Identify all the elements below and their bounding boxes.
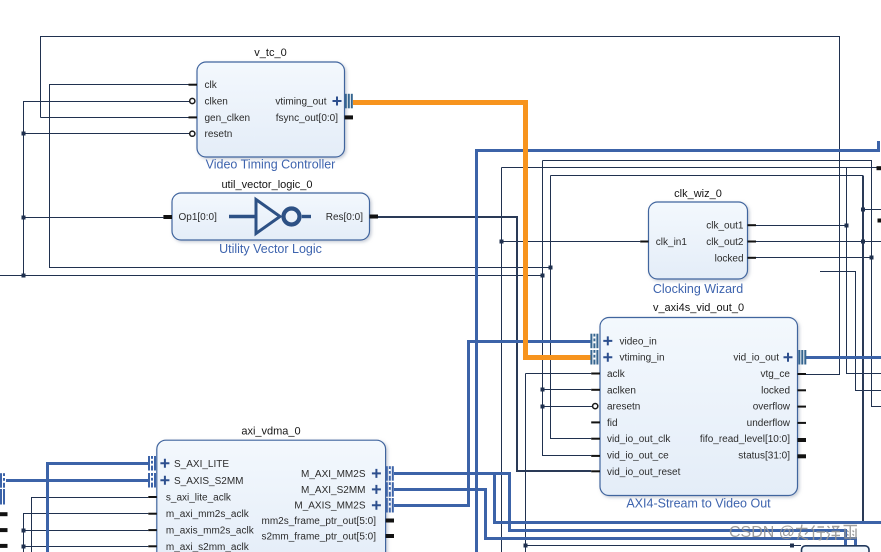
pin vdma S_AXIS_S2MM plus icon [160,476,169,485]
pin vdma mm2s_frame_ptr_out bus stub [386,519,394,523]
svg-text:m_axi_s2mm_aclk: m_axi_s2mm_aclk [166,542,250,552]
junction on clken net at resetn [22,132,26,136]
pin clk_wiz clk_out2 stub [748,241,757,243]
pin vdma M_AXIS_MM2S interface bars [386,498,394,513]
wire clk_out1 net horizontal y=175.5 [551,175,864,177]
junction clken net at x=542 [541,274,545,278]
svg-text:M_AXIS_MM2S: M_AXIS_MM2S [294,501,365,512]
bus wire S_AXI_LITE (blue) [48,464,149,552]
svg-text:s_axi_lite_aclk: s_axi_lite_aclk [166,493,232,504]
wire m_axi_s2mm_aclk branch [24,546,149,548]
wire aresetn branch [543,406,593,408]
svg-text:gen_clken: gen_clken [205,113,251,124]
svg-text:vid_io_out: vid_io_out [733,353,779,364]
wire s_axi_lite_aclk [32,498,149,552]
svg-text:fid: fid [607,418,618,429]
svg-text:clk_out1: clk_out1 [706,221,744,232]
pin v_axi4s vid_io_out interface bars [798,350,806,365]
svg-text:clk_in1: clk_in1 [656,237,688,248]
pin vdma m_axi_s2mm_aclk stub [148,545,157,547]
wire gen_clken [41,117,189,119]
wire Op1 branch [24,217,164,219]
svg-text:aclken: aclken [607,385,636,396]
junction m_axis_mm2s_aclk [22,529,26,533]
svg-text:clken: clken [205,97,228,108]
wire aclken branch [543,389,592,391]
pin v_tc_0 vtiming_out interface bars [345,94,353,109]
wire aclk net bottom horizontal [526,545,802,547]
bus wire blue branch to bottom right [495,474,881,523]
junction aclk bottom right [790,544,794,548]
left off-screen block stub y546 [0,544,8,548]
pin clk_wiz clk_in1 stub [640,241,648,243]
pin v_axi4s vid_io_out_clk stub [591,438,600,440]
wire locked branch [756,257,872,259]
junction y209 right [861,208,865,212]
block v_tc_0 (Video Timing Controller) [197,47,345,172]
svg-text:Clocking Wizard: Clocking Wizard [653,282,743,296]
block util_vector_logic_0 (Utility Vector Logic) [172,179,370,256]
pin vdma M_AXI_MM2S plus icon [372,469,381,478]
pin v_axi4s aclk stub [591,373,600,375]
watermark glyph long [796,525,857,541]
svg-text:m_axi_mm2s_aclk: m_axi_mm2s_aclk [166,509,250,520]
wire clk_in1 net vertical [501,168,503,552]
pin v_axi4s status bus stub [798,454,807,458]
pin vdma M_AXI_MM2S interface bars [386,466,394,481]
svg-text:fsync_out[0:0]: fsync_out[0:0] [276,113,338,124]
wire clken net long horizontal [0,275,543,277]
wire thick dark vertical right (2px) [862,176,864,524]
svg-text:vtiming_in: vtiming_in [620,353,665,364]
svg-text:m_axis_mm2s_aclk: m_axis_mm2s_aclk [166,526,255,537]
junction on clken net at Op1 [22,216,26,220]
pin v_axi4s fifo_read_level bus stub [798,438,807,442]
watermark glyph xing [812,526,826,541]
wire m_axis_mm2s_aclk branch [24,530,149,532]
pin v_tc_0 resetn circle [190,131,195,136]
svg-text:vtiming_out: vtiming_out [275,97,326,108]
wire aclk net vertical [526,374,592,552]
left off-screen block connected interface bars [0,473,5,488]
block axi_vdma_0 (AXI Video DMA, clipped at bottom) [157,426,386,552]
wire aclken net top horizontal to right [543,161,881,407]
wire resetn branch [24,133,190,135]
watermark glyph yu [844,526,858,540]
svg-text:util_vector_logic_0: util_vector_logic_0 [221,179,312,191]
svg-text:axi_vdma_0: axi_vdma_0 [241,426,300,438]
junction m_axi_s2mm_aclk [22,545,26,549]
svg-text:locked: locked [761,385,790,396]
NOT gate symbol U1 [229,200,311,234]
wire clken net vertical [24,102,190,276]
pin vdma M_AXIS_MM2S plus icon [372,501,381,510]
pin v_axi4s aresetn circle [593,404,598,409]
wire right branch y=209.5 [863,209,881,211]
svg-text:mm2s_frame_ptr_out[5:0]: mm2s_frame_ptr_out[5:0] [262,516,377,527]
junction aresetn [541,405,545,409]
svg-text:status[31:0]: status[31:0] [738,451,790,462]
bottom-right off-screen block corner [802,546,870,552]
svg-text:clk: clk [205,80,218,91]
junction locked [870,256,874,260]
svg-text:clk_out2: clk_out2 [706,237,744,248]
bus wire M_AXIS_MM2S to video_in (blue) [394,342,590,506]
svg-text:Op1[0:0]: Op1[0:0] [179,212,218,223]
svg-text:S_AXIS_S2MM: S_AXIS_S2MM [174,476,243,487]
pin v_axi4s locked stub [798,389,807,391]
pin clk_wiz locked stub [748,257,757,259]
pin v_axi4s underflow stub [798,422,807,424]
pin vdma S_AXIS_S2MM interface bars [148,473,156,488]
svg-text:overflow: overflow [753,402,791,413]
svg-text:vid_io_out_ce: vid_io_out_ce [607,451,669,462]
pin vdma s2mm_frame_ptr_out bus stub [386,534,394,538]
junction aclk bottom [524,544,528,548]
pin v_axi4s aclken stub [591,389,600,391]
svg-text:fifo_read_level[10:0]: fifo_read_level[10:0] [700,434,790,445]
svg-text:vtg_ce: vtg_ce [761,369,791,380]
svg-text:S_AXI_LITE: S_AXI_LITE [174,459,229,470]
pin vdma m_axis_mm2s_aclk stub [148,529,157,531]
svg-text:M_AXI_S2MM: M_AXI_S2MM [301,485,365,496]
svg-text:v_tc_0: v_tc_0 [254,47,286,59]
pin util Res bus stub [370,215,379,219]
pin vdma M_AXI_S2MM interface bars [386,482,394,497]
pin vdma S_AXI_LITE interface bars [148,456,156,471]
block clk_wiz_0 (Clocking Wizard) [649,188,748,296]
pin v_axi4s vid_io_out_ce stub [591,455,600,457]
left off-screen block stub y530 [0,528,8,532]
pin v_axi4s overflow stub [798,406,807,408]
pin v_tc_0 clken circle [190,98,195,103]
pin v_axi4s video_in plus icon [603,336,612,345]
bus wire M_AXI_S2MM (blue) [394,490,856,552]
watermark glyph ze [827,526,841,540]
pin v_axi4s vtg_ce stub [798,373,807,375]
svg-text:M_AXI_MM2S: M_AXI_MM2S [301,469,366,480]
svg-text:Utility Vector Logic: Utility Vector Logic [219,242,322,256]
pin v_axi4s vid_io_out_reset stub [591,470,600,472]
svg-text:Res[0:0]: Res[0:0] [326,212,363,223]
svg-text:Video Timing Controller: Video Timing Controller [206,158,336,172]
pin util Op1 bus stub [163,215,172,219]
svg-text:vid_io_out_clk: vid_io_out_clk [607,434,671,445]
svg-text:v_axi4s_vid_out_0: v_axi4s_vid_out_0 [653,302,744,314]
junction clk_out1 [845,224,849,228]
right off-screen block stub y168 [877,166,881,170]
junction aclken [541,388,545,392]
svg-text:aresetn: aresetn [607,402,640,413]
right off-screen block stub y220 [878,219,881,223]
junction clk_out2 [861,240,865,244]
pin v_tc_0 gen_clken stub [189,116,198,118]
pin vdma S_AXI_LITE plus icon [160,459,169,468]
wire right small net x=855.5 [820,272,881,391]
left off-screen block unconnected interface bars [0,489,5,505]
watermark CSDN [729,524,857,541]
pin v_tc_0 vtiming_out plus icon [333,97,342,106]
pin v_axi4s vid_io_out plus icon [784,353,793,362]
bus wire S_AXIS_S2MM (blue) [6,479,148,482]
bus wire vid_io_out (blue) [805,356,881,359]
pin vdma M_AXI_S2MM plus icon [372,485,381,494]
pin vdma s_axi_lite_aclk stub [148,496,157,498]
wire vtiming_out to vtiming_in highlighted (orange) [353,103,590,358]
wire clk_out1 net vertical x=550.5 to vid_io_out_clk [551,176,592,439]
svg-text:resetn: resetn [205,129,233,140]
pin v_axi4s video_in interface bars [590,334,598,349]
wire right mid horizontal (clk_in1 net top) [502,167,877,169]
wire aclken net vertical x=542 [543,161,592,456]
pin vdma m_axi_mm2s_aclk stub [148,513,157,515]
junction clk_in1 [500,240,504,244]
bus wire M_AXI_MM2S (blue) [394,474,846,552]
left off-screen block stub y514 [0,512,8,516]
wire m_axi_mm2s_aclk net [24,514,149,552]
pin clk_wiz clk_out1 stub [748,224,757,226]
svg-text:locked: locked [715,253,744,264]
wire clk_out2 row to right edge [756,241,881,243]
svg-text:video_in: video_in [620,336,657,347]
svg-text:CSDN @: CSDN @ [729,524,795,541]
svg-text:vid_io_out_reset: vid_io_out_reset [607,467,681,478]
block v_axi4s_vid_out_0 (AXI4-Stream to Video Out) [600,302,798,511]
junction clk net at x=550.5 [549,266,553,270]
wire clk_out1 net vertical x=846.5 [847,168,881,374]
pin v_axi4s vtiming_in interface bars [590,350,598,365]
wire Res to vid_io_out_reset (2px) [378,217,591,471]
junction on clken net at long horizontal [22,274,26,278]
pin v_tc_0 fsync_out bus stub [345,115,354,119]
bus wire long blue from top right down (blue) [477,141,879,552]
svg-text:clk_wiz_0: clk_wiz_0 [674,188,722,200]
wire clk_out1 from clk_wiz [756,225,847,227]
svg-text:aclk: aclk [607,369,626,380]
svg-text:underflow: underflow [747,418,791,429]
pin v_tc_0 clk stub [189,84,198,86]
svg-text:AXI4-Stream to Video Out: AXI4-Stream to Video Out [626,497,771,511]
wire clk net: v_tc clk to long horizontal [50,85,551,268]
wire net vtg_ce to gen_clken (top long wire) [41,37,840,375]
pin v_axi4s fid stub [591,421,600,423]
svg-text:s2mm_frame_ptr_out[5:0]: s2mm_frame_ptr_out[5:0] [262,532,377,543]
wire clk_in1 branch [502,241,641,243]
pin v_axi4s vtiming_in plus icon [603,353,612,362]
